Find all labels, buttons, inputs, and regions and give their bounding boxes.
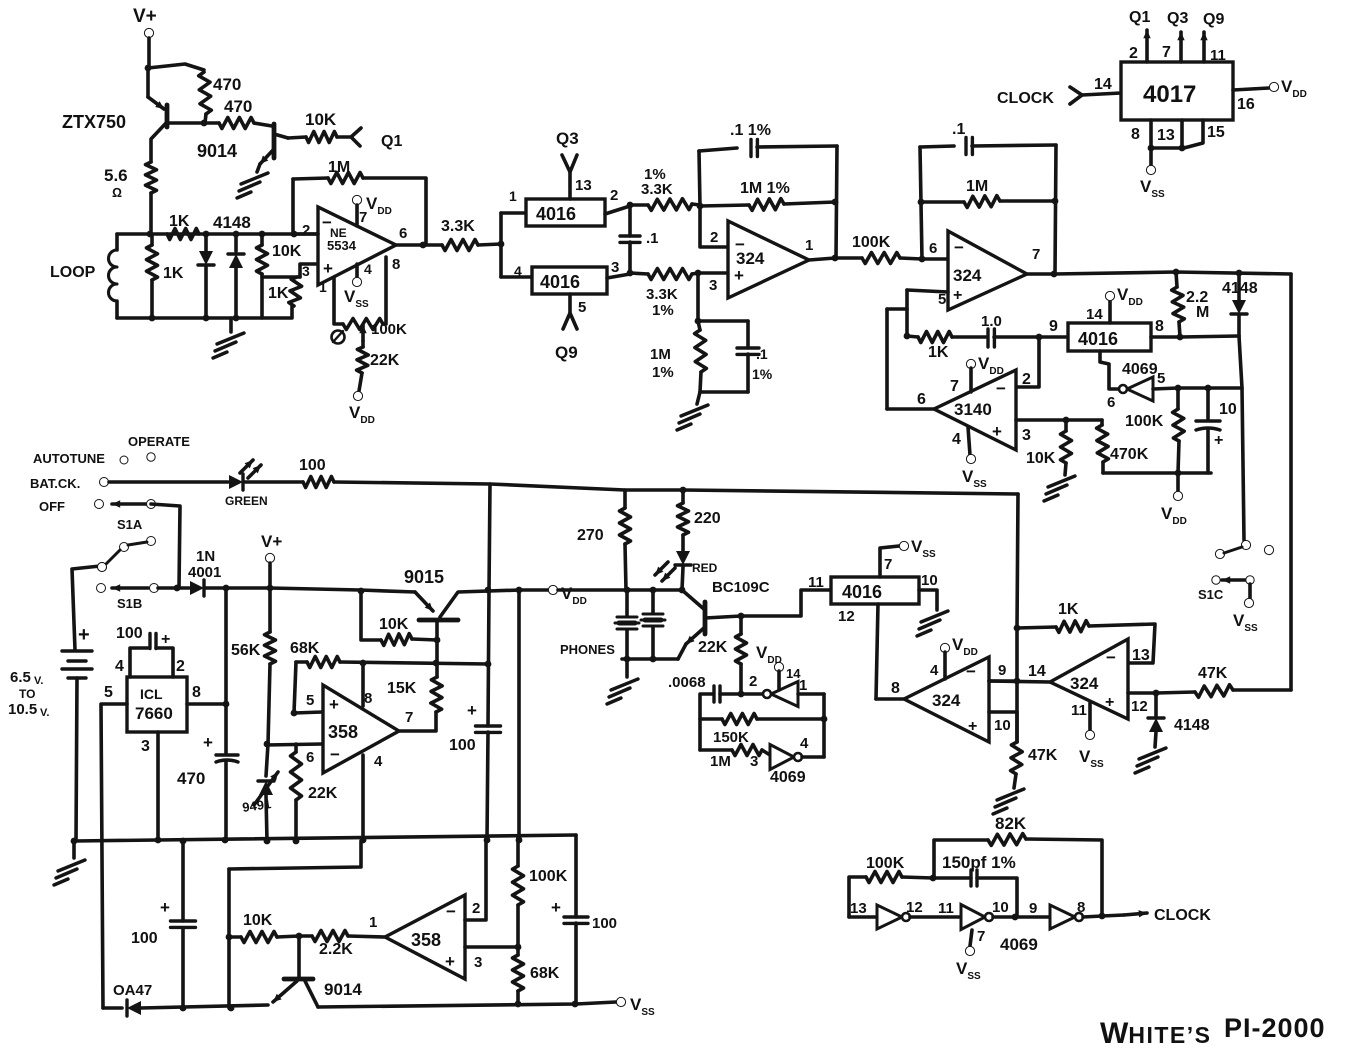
led arrow g1 bbox=[240, 460, 253, 473]
svg-text:3.3K: 3.3K bbox=[441, 218, 475, 235]
LED red bbox=[676, 551, 690, 565]
terminal VDD 3140 bbox=[966, 359, 975, 368]
node L6 bbox=[180, 1005, 187, 1012]
node E4 bbox=[1173, 269, 1180, 276]
svg-text:−: − bbox=[1106, 648, 1116, 667]
wire minus 358a bbox=[266, 744, 322, 745]
wire vdd stem ne bbox=[355, 205, 359, 226]
wire vdd stem 4069b bbox=[777, 671, 781, 690]
node G1 bbox=[174, 585, 181, 592]
svg-text:.1: .1 bbox=[756, 346, 768, 362]
svg-text:BAT.CK.: BAT.CK. bbox=[30, 476, 80, 491]
svg-text:V.: V. bbox=[34, 675, 43, 687]
ground 9014a bbox=[237, 173, 268, 198]
svg-text:OA47: OA47 bbox=[113, 982, 152, 999]
connector Q1 fork bbox=[351, 128, 361, 146]
contact w1b bbox=[98, 563, 107, 572]
wire 3.3Kc lead2 bbox=[692, 273, 698, 274]
resistor 1M ne bbox=[328, 173, 363, 184]
wire 150K lead1 bbox=[700, 717, 722, 721]
svg-text:1M: 1M bbox=[650, 346, 671, 363]
svg-text:8: 8 bbox=[364, 690, 372, 707]
emitter arrow 9014a bbox=[260, 149, 274, 164]
wire fb rect top bbox=[229, 841, 361, 869]
wire 10Kb lead1 bbox=[229, 935, 241, 939]
svg-text:150K: 150K bbox=[713, 729, 749, 746]
wire 22Kb lead1 bbox=[739, 616, 743, 634]
wire 22Kb lead2 bbox=[739, 664, 743, 694]
svg-text:5534: 5534 bbox=[327, 238, 357, 253]
svg-text:358: 358 bbox=[411, 930, 441, 950]
svg-text:47K: 47K bbox=[1198, 665, 1228, 682]
svg-text:ICL: ICL bbox=[140, 686, 163, 702]
wire 470a to base node bbox=[205, 114, 206, 123]
svg-text:Ω: Ω bbox=[112, 185, 122, 200]
wire 4148b stem bbox=[1237, 273, 1241, 300]
terminal VDD 324c bbox=[940, 643, 949, 652]
svg-text:10: 10 bbox=[992, 899, 1009, 916]
wire s1b to diode bbox=[158, 586, 189, 590]
node C6 bbox=[832, 199, 839, 206]
wire batck to led bbox=[109, 480, 228, 484]
ground 4148c bbox=[1135, 748, 1166, 773]
svg-text:150pf 1%: 150pf 1% bbox=[942, 853, 1016, 872]
node J1 bbox=[680, 487, 687, 494]
node L2 bbox=[296, 933, 303, 940]
svg-text:4148: 4148 bbox=[1222, 280, 1258, 297]
wire 10Kreg lead2 bbox=[412, 639, 437, 640]
svg-text:1%: 1% bbox=[652, 364, 674, 381]
wire U7 fb top2 bbox=[1089, 624, 1155, 663]
svg-text:9014: 9014 bbox=[324, 980, 362, 999]
wire 150pf lead2 bbox=[977, 878, 1017, 916]
resistor 1M gnd bbox=[695, 330, 707, 372]
wire 358b pin2 bbox=[465, 840, 486, 920]
node B2 bbox=[498, 241, 505, 248]
inverter 4069 c bbox=[770, 745, 794, 770]
svg-text:470: 470 bbox=[213, 75, 241, 94]
svg-text:RED: RED bbox=[692, 561, 718, 575]
wire 4069b in bbox=[798, 692, 824, 696]
ic 4016 a bbox=[526, 199, 605, 226]
svg-text:−: − bbox=[966, 662, 976, 681]
wire net gnd stem bbox=[697, 392, 700, 404]
wire batt top bbox=[72, 566, 100, 650]
svg-text:3: 3 bbox=[302, 263, 310, 279]
svg-text:8: 8 bbox=[192, 684, 201, 701]
resistor 220 bbox=[678, 503, 689, 535]
svg-text:V.: V. bbox=[40, 707, 49, 719]
wire cap01a top bbox=[628, 205, 632, 236]
svg-text:470K: 470K bbox=[1110, 446, 1149, 463]
wire 324c pin9 bbox=[989, 679, 1017, 683]
wire diode1 top bbox=[204, 234, 208, 251]
resistor 82K bbox=[988, 834, 1026, 846]
node H15 bbox=[71, 838, 78, 845]
resistor 1K vert bbox=[147, 245, 158, 280]
node A3 bbox=[203, 231, 210, 238]
node E1 bbox=[145, 65, 152, 72]
svg-text:LOOP: LOOP bbox=[50, 264, 96, 281]
wire clock out bbox=[1102, 915, 1124, 916]
switch S1C contact b bbox=[1264, 545, 1273, 554]
wire 1MU2 lead1 bbox=[700, 205, 749, 206]
wire U2 fb right bbox=[836, 146, 837, 258]
resistor 3.3K b bbox=[648, 199, 692, 211]
wire piezo2 top bbox=[651, 590, 655, 613]
svg-text:11: 11 bbox=[1210, 47, 1226, 64]
node H16 bbox=[484, 837, 491, 844]
wire 9014b collector bbox=[305, 981, 318, 1007]
svg-text:4069: 4069 bbox=[770, 769, 806, 786]
resistor 1M fb U2 bbox=[749, 199, 784, 211]
node G2 bbox=[223, 585, 230, 592]
contact operate bbox=[147, 453, 155, 461]
node D1 bbox=[919, 256, 926, 263]
wire ne out bbox=[396, 243, 423, 247]
resistor 100 led bbox=[303, 477, 334, 488]
svg-text:14: 14 bbox=[1028, 663, 1046, 680]
wire bc109 emitter bbox=[678, 644, 686, 659]
wire 10Kin lead bbox=[260, 234, 264, 245]
terminal VSS ne bbox=[352, 277, 361, 286]
svg-text:WHITE’S: WHITE’S bbox=[1100, 1017, 1211, 1050]
wire gnd stem main bbox=[72, 841, 76, 858]
svg-text:1M: 1M bbox=[710, 753, 731, 770]
node G3 bbox=[267, 585, 274, 592]
svg-text:4: 4 bbox=[514, 263, 522, 279]
wire 4016c pin8 bbox=[1151, 335, 1180, 339]
wire wiper to 22K bbox=[361, 341, 365, 347]
LED green bbox=[229, 475, 243, 489]
svg-text:−: − bbox=[322, 213, 332, 232]
svg-text:4: 4 bbox=[364, 261, 372, 277]
wire 4016b out bbox=[607, 274, 630, 278]
capacitor 470uF bbox=[216, 755, 238, 762]
resistor 10K reg bbox=[381, 634, 412, 646]
wire cap1.0 lead2 bbox=[994, 335, 1039, 339]
wire to 4016b bbox=[501, 275, 532, 279]
wire 5.6 to bus bbox=[149, 193, 153, 234]
wire 68K down to plus bbox=[294, 662, 296, 713]
svg-text:+: + bbox=[467, 701, 477, 720]
node A6 bbox=[233, 315, 240, 322]
wire 3.3Ka lead1 bbox=[423, 243, 442, 247]
ic ICL7660 bbox=[127, 677, 187, 732]
node D3 bbox=[1052, 198, 1059, 205]
wire 887 down bbox=[885, 309, 889, 409]
svg-text:12: 12 bbox=[906, 899, 923, 916]
wire U3 minus bbox=[922, 257, 948, 261]
wire 470cap top bbox=[224, 704, 228, 754]
contact batck bbox=[100, 478, 109, 487]
terminal VDD 4017 bbox=[1269, 82, 1278, 91]
wire 270 lead1 bbox=[623, 490, 627, 508]
resistor 100K a bbox=[862, 253, 900, 264]
svg-text:5.6: 5.6 bbox=[104, 166, 128, 185]
wire VDD stem E7 bbox=[1176, 473, 1180, 492]
arrow Q9 out bbox=[1202, 32, 1206, 62]
node K1 bbox=[1014, 625, 1021, 632]
wire U2 fb top bbox=[699, 148, 737, 151]
svg-text:Q1: Q1 bbox=[1129, 9, 1150, 26]
terminal VDD E7 bbox=[1173, 491, 1182, 500]
svg-text:2: 2 bbox=[472, 900, 480, 917]
svg-text:10: 10 bbox=[921, 572, 938, 589]
node D5 bbox=[904, 333, 911, 340]
svg-text:10: 10 bbox=[1219, 401, 1237, 418]
transistor BC109C bar bbox=[703, 602, 708, 634]
connector clock chevron bbox=[1070, 87, 1082, 104]
resistor 47K b bbox=[1011, 742, 1023, 774]
svg-text:100K: 100K bbox=[852, 234, 891, 251]
svg-text:TO: TO bbox=[19, 687, 35, 701]
svg-text:7: 7 bbox=[1032, 246, 1040, 263]
wire right vertical bbox=[1289, 274, 1293, 690]
wire to R 470a bbox=[148, 64, 204, 70]
wire 47Kc lead2 bbox=[1233, 688, 1291, 692]
resistor 68K a bbox=[307, 657, 340, 668]
node J3 bbox=[624, 587, 631, 594]
svg-text:7: 7 bbox=[977, 928, 985, 945]
svg-text:270: 270 bbox=[577, 527, 604, 544]
wire loop bottom bbox=[115, 301, 119, 318]
wire 10K3140 gnd bbox=[1065, 463, 1066, 475]
svg-text:2: 2 bbox=[749, 673, 757, 690]
wire fb left bbox=[291, 179, 295, 234]
wire capgnd bot bbox=[746, 354, 750, 392]
svg-text:10K: 10K bbox=[243, 912, 273, 929]
wire right rail2 bbox=[574, 923, 578, 1004]
wire 1MU3 lead1 bbox=[921, 200, 964, 204]
node E9 bbox=[1205, 385, 1212, 392]
wire inv1 in bbox=[849, 915, 877, 919]
wire fb top left bbox=[293, 178, 328, 179]
svg-text:.1: .1 bbox=[952, 121, 965, 138]
ground 47Kb bbox=[993, 789, 1024, 814]
capacitor 100 7660 bbox=[150, 634, 156, 649]
svg-text:+: + bbox=[734, 266, 744, 285]
svg-text:+: + bbox=[203, 733, 213, 752]
svg-text:6: 6 bbox=[929, 240, 937, 257]
svg-text:1M 1%: 1M 1% bbox=[740, 180, 790, 197]
svg-text:22K: 22K bbox=[308, 785, 338, 802]
wire U3 out long bbox=[1054, 272, 1291, 274]
wire 7660 pin3 bbox=[156, 732, 160, 840]
wire 82K right bbox=[1026, 839, 1102, 915]
op-amp U5 LM358-1 bbox=[323, 685, 399, 773]
svg-text:82K: 82K bbox=[995, 814, 1027, 833]
wire 470cap bot bbox=[224, 762, 228, 840]
svg-text:9014: 9014 bbox=[197, 141, 237, 161]
svg-text:324: 324 bbox=[1070, 674, 1099, 693]
node F2 bbox=[1179, 145, 1186, 152]
svg-text:68K: 68K bbox=[530, 965, 560, 982]
switch S1C contact c bbox=[1246, 576, 1254, 584]
svg-text:11: 11 bbox=[808, 574, 824, 591]
wire bus to 9015 bbox=[270, 588, 415, 592]
wire U7 pin12 bbox=[1128, 691, 1156, 695]
wire tee to 1K+ bbox=[262, 275, 300, 279]
inverter 4069 b bbox=[771, 682, 798, 707]
svg-text:PHONES: PHONES bbox=[560, 642, 615, 657]
wire 10K to Q1 fork bbox=[337, 135, 352, 139]
wire to 3140 in bbox=[887, 407, 934, 411]
svg-text:100K: 100K bbox=[1125, 413, 1164, 430]
ic 4016 b bbox=[532, 267, 607, 294]
wire cap1.0 lead bbox=[952, 335, 986, 339]
svg-text:3: 3 bbox=[750, 753, 758, 770]
svg-text:+: + bbox=[1105, 694, 1114, 711]
wire plus down bbox=[905, 290, 909, 336]
wire 2.2M stem2 bbox=[1179, 322, 1180, 337]
terminal VSS 3140 bbox=[966, 454, 975, 463]
svg-text:1: 1 bbox=[509, 188, 517, 204]
node A7 bbox=[259, 231, 266, 238]
wire cap100d bot bbox=[181, 928, 185, 1008]
wire 100Ka lead1 bbox=[835, 256, 862, 260]
svg-text:13: 13 bbox=[1157, 127, 1175, 144]
capacitor .1 fb U3 bbox=[966, 138, 972, 155]
svg-text:AUTOTUNE: AUTOTUNE bbox=[33, 451, 105, 466]
wire osc top mid bbox=[720, 692, 741, 696]
wire vdd stem 3140 bbox=[969, 368, 973, 392]
wire 10Kreg lead1 bbox=[361, 591, 381, 640]
node K2 bbox=[1014, 678, 1021, 685]
pot symbol phi bbox=[332, 331, 345, 344]
node M3 bbox=[1099, 913, 1106, 920]
switch S1B arrow bbox=[112, 586, 148, 590]
node G4 bbox=[358, 588, 365, 595]
svg-text:S1C: S1C bbox=[1198, 587, 1224, 602]
inverter 4069 g bbox=[1050, 905, 1075, 929]
svg-text:4148: 4148 bbox=[1174, 717, 1210, 734]
svg-text:11: 11 bbox=[1071, 702, 1087, 719]
svg-text:7: 7 bbox=[1162, 44, 1171, 61]
wire 4148 node to s1c bbox=[1239, 336, 1244, 540]
wire piezo1 bot bbox=[625, 630, 629, 659]
wire net top bbox=[698, 319, 748, 323]
svg-text:6: 6 bbox=[399, 225, 407, 242]
wire right rail bbox=[574, 835, 578, 917]
wire diode to bus bbox=[206, 586, 270, 590]
op-amp U3 LM324-2 bbox=[948, 231, 1027, 310]
svg-text:GREEN: GREEN bbox=[225, 494, 268, 508]
svg-text:4: 4 bbox=[952, 431, 961, 448]
resistor 22K a bbox=[291, 752, 302, 800]
svg-text:7660: 7660 bbox=[135, 704, 173, 723]
arrow Q3 out bbox=[1179, 32, 1183, 62]
resistor 68K b bbox=[513, 955, 524, 991]
node J8 bbox=[738, 691, 745, 698]
wire 10K3140 lead bbox=[1064, 420, 1068, 431]
wire collector to 10K bbox=[288, 137, 306, 138]
wire bc109 collector bbox=[682, 590, 705, 610]
svg-text:9: 9 bbox=[1049, 318, 1058, 335]
wire 9014a emitter to gnd bbox=[257, 164, 260, 172]
terminal V+ mid bbox=[265, 553, 274, 562]
wire fb top right bbox=[363, 178, 426, 245]
node H11 bbox=[264, 838, 271, 845]
svg-text:CLOCK: CLOCK bbox=[1154, 907, 1211, 924]
contact w1 bbox=[98, 563, 107, 572]
resistor 150K bbox=[722, 714, 757, 725]
connector Q3 fork bbox=[562, 155, 577, 172]
terminal VSS U7 bbox=[1085, 730, 1094, 739]
wire U3 fb top2 bbox=[972, 145, 1056, 146]
svg-text:16: 16 bbox=[1237, 96, 1255, 113]
wire s1c vss bbox=[1248, 584, 1252, 599]
resistor 270 bbox=[620, 508, 631, 544]
wire 4017 pin16 bbox=[1233, 88, 1269, 90]
svg-text:1%: 1% bbox=[652, 302, 674, 319]
svg-text:324: 324 bbox=[953, 266, 982, 285]
svg-text:3.3K: 3.3K bbox=[641, 181, 673, 198]
svg-text:10: 10 bbox=[994, 717, 1011, 734]
node H13 bbox=[222, 837, 229, 844]
svg-text:15K: 15K bbox=[387, 680, 417, 697]
wire ne minus in bbox=[293, 232, 318, 236]
svg-text:10K: 10K bbox=[272, 243, 302, 260]
op-amp U7 LM324-4 bbox=[1050, 639, 1128, 719]
svg-text:4: 4 bbox=[800, 735, 809, 752]
svg-text:100: 100 bbox=[131, 930, 158, 947]
wire 1Mgnd lead1 bbox=[698, 321, 700, 330]
wire zener lead bbox=[266, 744, 268, 776]
wire 1Mosc lead1 bbox=[700, 748, 732, 752]
wire 68Ka lead2 bbox=[340, 662, 488, 664]
resistor 2.2M bbox=[1172, 287, 1185, 322]
arrow Q1 out bbox=[1145, 30, 1149, 62]
wire 56K lead2 bbox=[268, 664, 270, 744]
terminal VSS inv2 bbox=[965, 946, 974, 955]
wire base ZTX bbox=[167, 121, 204, 125]
svg-text:V+: V+ bbox=[261, 532, 282, 551]
wire 4016d pin7 bbox=[880, 546, 899, 577]
svg-text:1%: 1% bbox=[752, 366, 773, 382]
ground 4016d bbox=[917, 611, 948, 636]
node C2 bbox=[627, 270, 634, 277]
wire 100Kosc lead2 bbox=[902, 877, 933, 878]
resistor 10K b bbox=[241, 932, 277, 943]
wire 3.3Kb lead bbox=[630, 203, 648, 207]
svg-text:−: − bbox=[330, 745, 340, 764]
node C3 bbox=[697, 203, 704, 210]
wire 358a pin4 stem bbox=[361, 755, 365, 840]
wire 100Kservo lead1 bbox=[1176, 388, 1180, 409]
svg-text:Q9: Q9 bbox=[1203, 11, 1224, 28]
node B1 bbox=[420, 242, 427, 249]
wire 56K lead1 bbox=[268, 588, 272, 632]
contact w3 bbox=[147, 537, 156, 546]
svg-text:1M: 1M bbox=[328, 159, 350, 176]
wire autotune drop bbox=[1017, 494, 1018, 628]
node H2 bbox=[516, 587, 523, 594]
svg-text:3: 3 bbox=[611, 259, 619, 276]
terminal VSS 4016d bbox=[899, 541, 908, 550]
wire vdd cap line bbox=[488, 591, 489, 726]
wire 1Mgnd lead2 bbox=[700, 372, 701, 392]
svg-text:OFF: OFF bbox=[39, 499, 65, 514]
wire to 4016a bbox=[501, 211, 526, 215]
svg-text:Q3: Q3 bbox=[1167, 10, 1188, 27]
wire plus to U2 bbox=[698, 271, 728, 275]
wire 100Ka lead2 bbox=[900, 258, 922, 259]
resistor 470K bbox=[1097, 425, 1109, 462]
node H3 bbox=[434, 637, 441, 644]
switch S1C bar bbox=[1224, 547, 1242, 553]
wire led red out bbox=[682, 567, 683, 590]
